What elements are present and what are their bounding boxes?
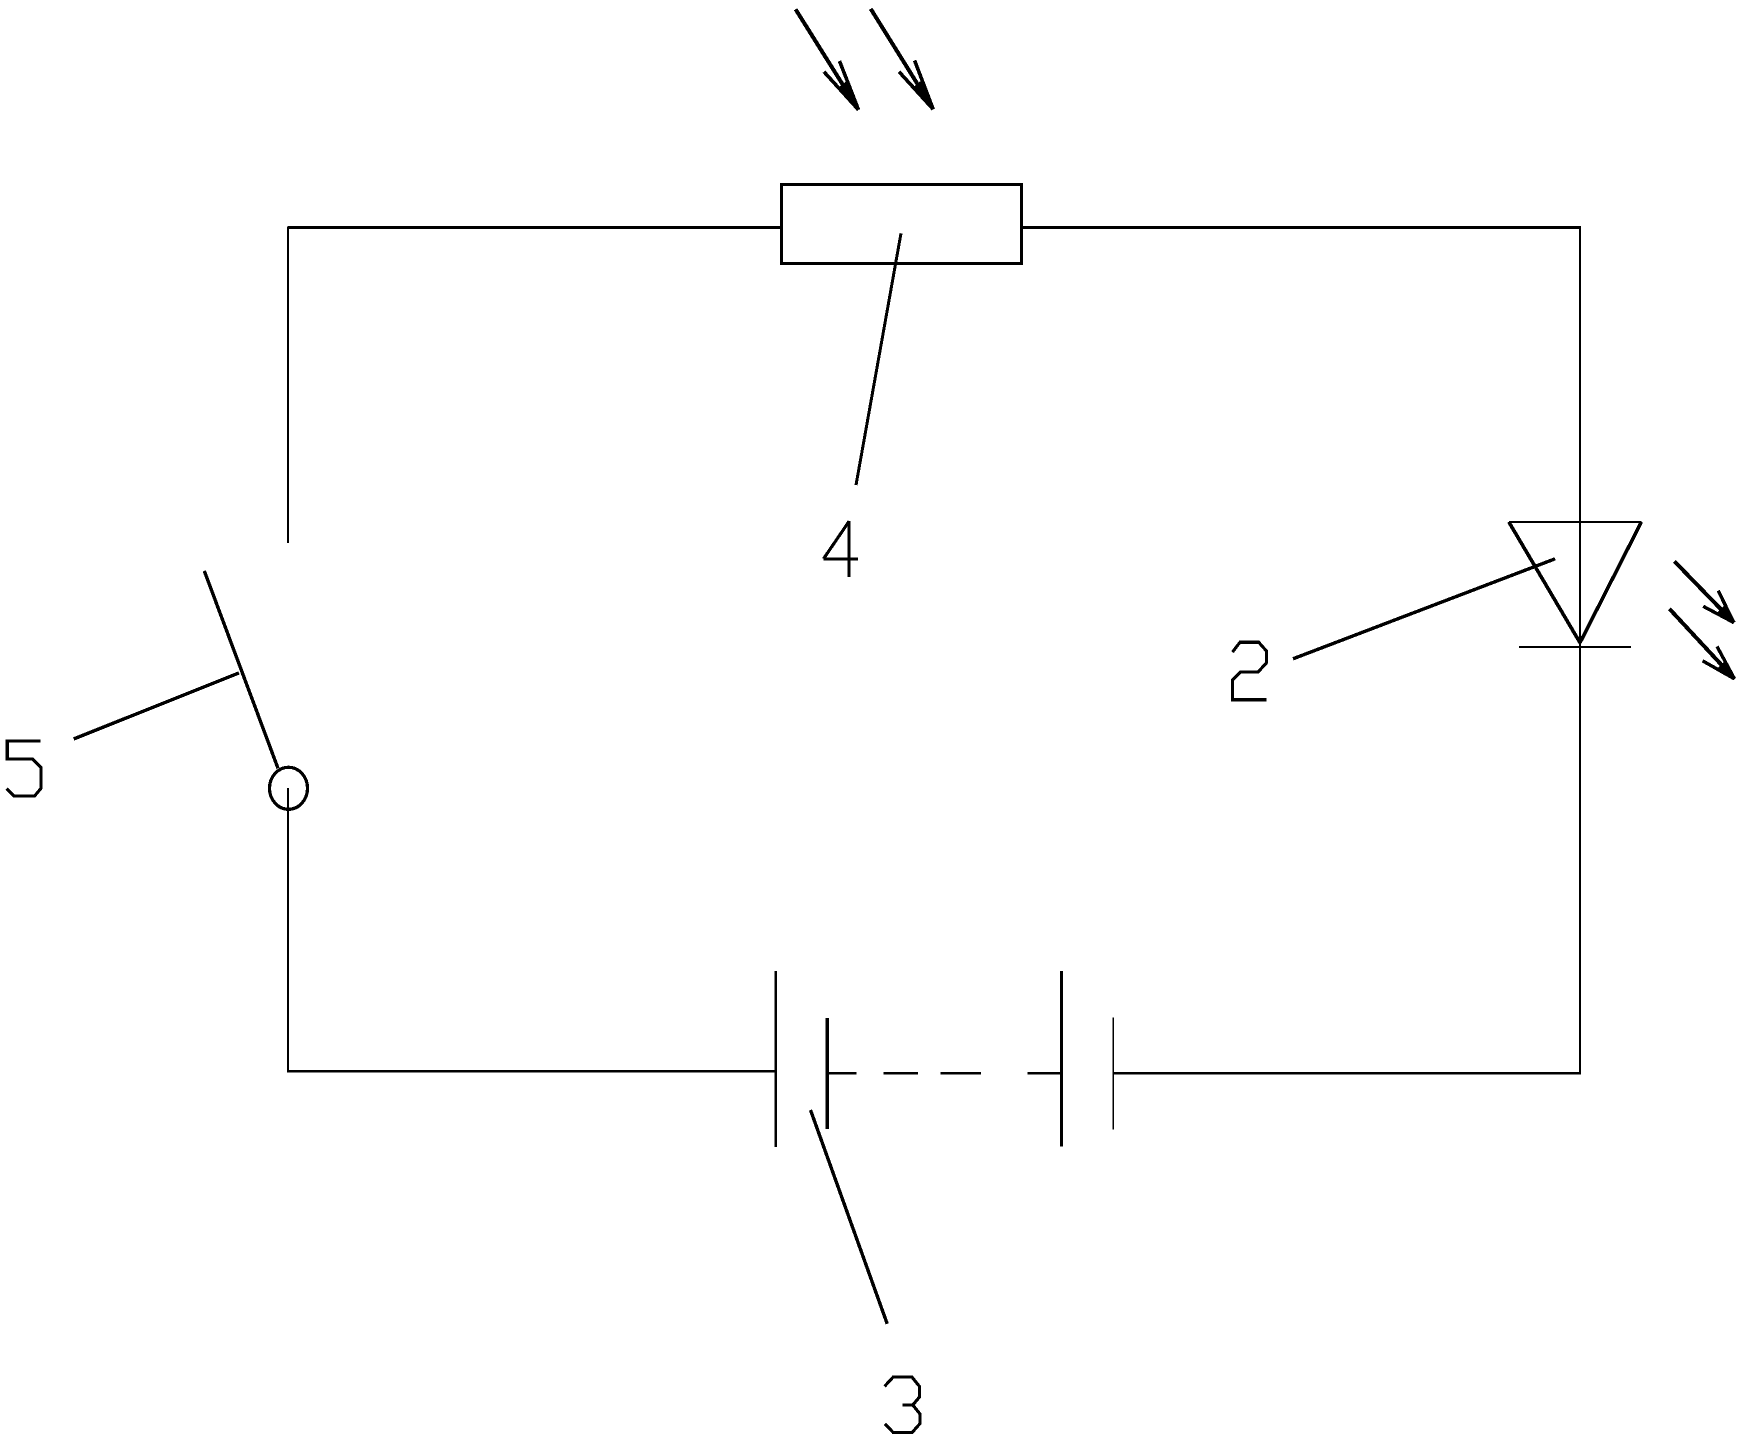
solar cell rectangle (component 4) (781, 184, 1021, 263)
light arrow 2 barb a (915, 61, 934, 110)
LED cathode bar (1519, 646, 1631, 648)
label 4 (823, 521, 858, 577)
leader line for label 4 (856, 233, 901, 485)
battery cell 2 short plate (1112, 1017, 1114, 1129)
LED emission arrow B head fill (1717, 661, 1735, 679)
wire bottom-right horizontal (1113, 1072, 1581, 1075)
wire top-right horizontal (1021, 226, 1580, 229)
leader line for label 2 (1293, 559, 1555, 659)
LED emission arrow A head fill (1717, 605, 1734, 623)
light arrow 2 head fill (913, 81, 934, 110)
LED triangle (component 2) (1509, 521, 1642, 523)
battery link wire (1028, 1072, 1063, 1074)
wire bottom-left horizontal (287, 1070, 776, 1073)
battery cell 1 long plate (775, 971, 778, 1147)
leader line for label 5 (74, 673, 239, 739)
light arrow 2 barb b (899, 72, 933, 110)
LED emission arrow A shaft (1674, 561, 1734, 622)
LED emission arrow B shaft (1669, 609, 1734, 679)
LED emission arrow B barb b (1703, 661, 1735, 679)
battery stub wire (827, 1072, 856, 1074)
wire left vertical lower (287, 788, 289, 1072)
battery cell 2 long plate (1060, 971, 1063, 1146)
wire left vertical upper (287, 227, 289, 544)
wire right vertical (1579, 226, 1581, 1073)
LED emission arrow A barb b (1703, 606, 1734, 622)
label 5 (7, 741, 41, 796)
light arrow 1 barb b (824, 72, 859, 110)
switch blade (component 5) (204, 571, 278, 768)
leader line for label 3 (811, 1110, 888, 1324)
battery dash 1 (884, 1072, 919, 1074)
LED emission arrow A barb a (1718, 591, 1734, 623)
light arrow 2 shaft (871, 9, 934, 110)
LED emission arrow B barb a (1717, 646, 1735, 679)
light arrow 1 head fill (838, 81, 859, 110)
battery dash 2 (941, 1072, 982, 1074)
battery cell 1 short plate (825, 1018, 829, 1129)
light arrow 1 shaft (796, 9, 859, 110)
label 3 (885, 1377, 920, 1433)
wire top-left horizontal (288, 226, 781, 229)
switch contact circle (270, 767, 308, 809)
light arrow 1 barb a (840, 61, 859, 110)
label 2 (1233, 642, 1267, 700)
